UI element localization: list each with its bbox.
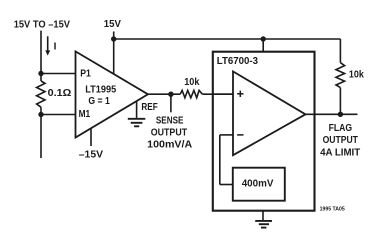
svg-text:15V TO –15V: 15V TO –15V: [14, 20, 71, 31]
svg-text:REF: REF: [141, 102, 157, 113]
svg-text:I: I: [54, 42, 57, 53]
svg-text:P1: P1: [80, 68, 91, 79]
svg-text:100mV/A: 100mV/A: [147, 139, 192, 150]
svg-text:–15V: –15V: [79, 150, 104, 161]
svg-text:400mV: 400mV: [242, 179, 274, 190]
svg-text:4A LIMIT: 4A LIMIT: [320, 148, 360, 159]
svg-text:0.1Ω: 0.1Ω: [48, 88, 72, 99]
svg-text:LT1995: LT1995: [85, 85, 116, 96]
svg-text:M1: M1: [79, 109, 91, 120]
svg-text:SENSE: SENSE: [156, 115, 184, 126]
svg-text:15V: 15V: [104, 19, 121, 30]
svg-text:10k: 10k: [349, 69, 364, 80]
svg-text:G = 1: G = 1: [88, 96, 110, 107]
svg-text:FLAG: FLAG: [329, 123, 353, 134]
svg-text:10k: 10k: [184, 77, 200, 88]
svg-text:LT6700-3: LT6700-3: [217, 56, 259, 67]
svg-text:1995 TA05: 1995 TA05: [320, 207, 345, 213]
svg-text:OUTPUT: OUTPUT: [151, 127, 187, 138]
svg-text:OUTPUT: OUTPUT: [323, 135, 358, 146]
